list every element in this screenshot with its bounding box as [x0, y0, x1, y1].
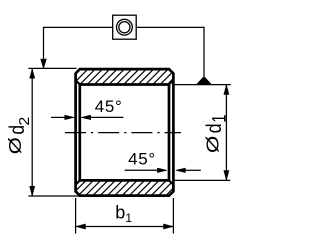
d2 extension line top — [28, 67, 76, 69]
b1 extension line right — [172, 198, 174, 234]
45deg chamfer dimension upper: outside segment with arrow — [51, 116, 65, 118]
svg-text:d: d — [203, 123, 227, 133]
svg-text:d: d — [6, 125, 29, 135]
45deg chamfer dimension lower: inside segment with arrow — [125, 169, 158, 171]
b1 dimension arrow left — [76, 224, 86, 229]
bore top line — [80, 83, 169, 86]
centerline (axis, dash-dot) — [65, 132, 181, 134]
label Ø d1 — [203, 114, 231, 153]
leader line right from frame — [136, 27, 204, 76]
concentricity symbol inner circle — [119, 22, 130, 33]
bore chamfer diagonal top-right — [169, 80, 173, 84]
d2 dimension arrow up — [30, 69, 35, 79]
bore chamfer diagonal bottom-right — [169, 180, 173, 184]
d1 dimension line — [225, 85, 227, 180]
d2 extension line bottom — [28, 195, 79, 197]
d1 extension line top — [175, 84, 231, 86]
svg-text:Ø: Ø — [204, 136, 223, 153]
svg-text:45°: 45° — [95, 97, 123, 116]
b1 dimension arrow right — [164, 224, 174, 229]
concentricity tolerance frame box — [113, 15, 137, 39]
datum triangle on d1 extension line — [196, 76, 212, 85]
label Ø d2 — [6, 117, 33, 154]
d1 extension line bottom — [175, 179, 231, 181]
bore chamfer edge left — [78, 85, 81, 181]
leader arrowhead down onto d2 extension line — [41, 59, 47, 68]
b1 dimension line — [76, 226, 173, 228]
svg-text:2: 2 — [16, 117, 32, 126]
leader line left from frame — [44, 27, 113, 58]
concentricity symbol outer circle — [117, 19, 133, 35]
d2 dimension line — [31, 69, 33, 196]
d1 dimension arrow up — [224, 85, 229, 95]
45deg chamfer dimension lower: outside segment with arrow — [185, 169, 201, 171]
bore bottom line — [80, 179, 169, 182]
svg-text:1: 1 — [209, 114, 230, 122]
d2 dimension arrow down — [30, 186, 35, 196]
45deg chamfer dimension upper: inside segment with arrow — [91, 116, 124, 118]
svg-text:Ø: Ø — [6, 137, 25, 154]
b1 extension line left — [75, 198, 77, 234]
d1 dimension arrow down — [224, 171, 229, 181]
bore chamfer edge right — [168, 85, 171, 181]
svg-text:45°: 45° — [128, 150, 156, 169]
bore chamfer diagonal top-left — [76, 80, 80, 84]
hatching of bushing wall section — [0, 60, 309, 205]
bushing outer contour with corner chamfers — [76, 69, 174, 196]
bore chamfer diagonal bottom-left — [76, 180, 80, 184]
svg-text:b1: b1 — [115, 202, 132, 224]
